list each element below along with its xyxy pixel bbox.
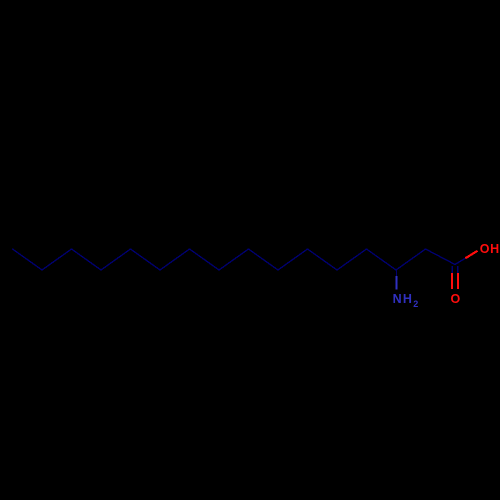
chain C16-C2 zigzag carbon skeleton <box>13 249 456 270</box>
double bond C1=O carbon halves <box>451 266 453 273</box>
bond C1-OH oxygen half <box>465 251 477 258</box>
bond C3-N nitrogen half <box>396 276 398 290</box>
double bond C1=O oxygen halves <box>451 273 453 289</box>
bond C3-N carbon half <box>396 270 398 276</box>
svg-text:2: 2 <box>413 299 418 309</box>
svg-text:O: O <box>451 292 461 306</box>
svg-text:OH: OH <box>480 242 500 256</box>
bond C1-OH carbon half <box>455 258 465 264</box>
svg-text:NH: NH <box>393 292 413 306</box>
